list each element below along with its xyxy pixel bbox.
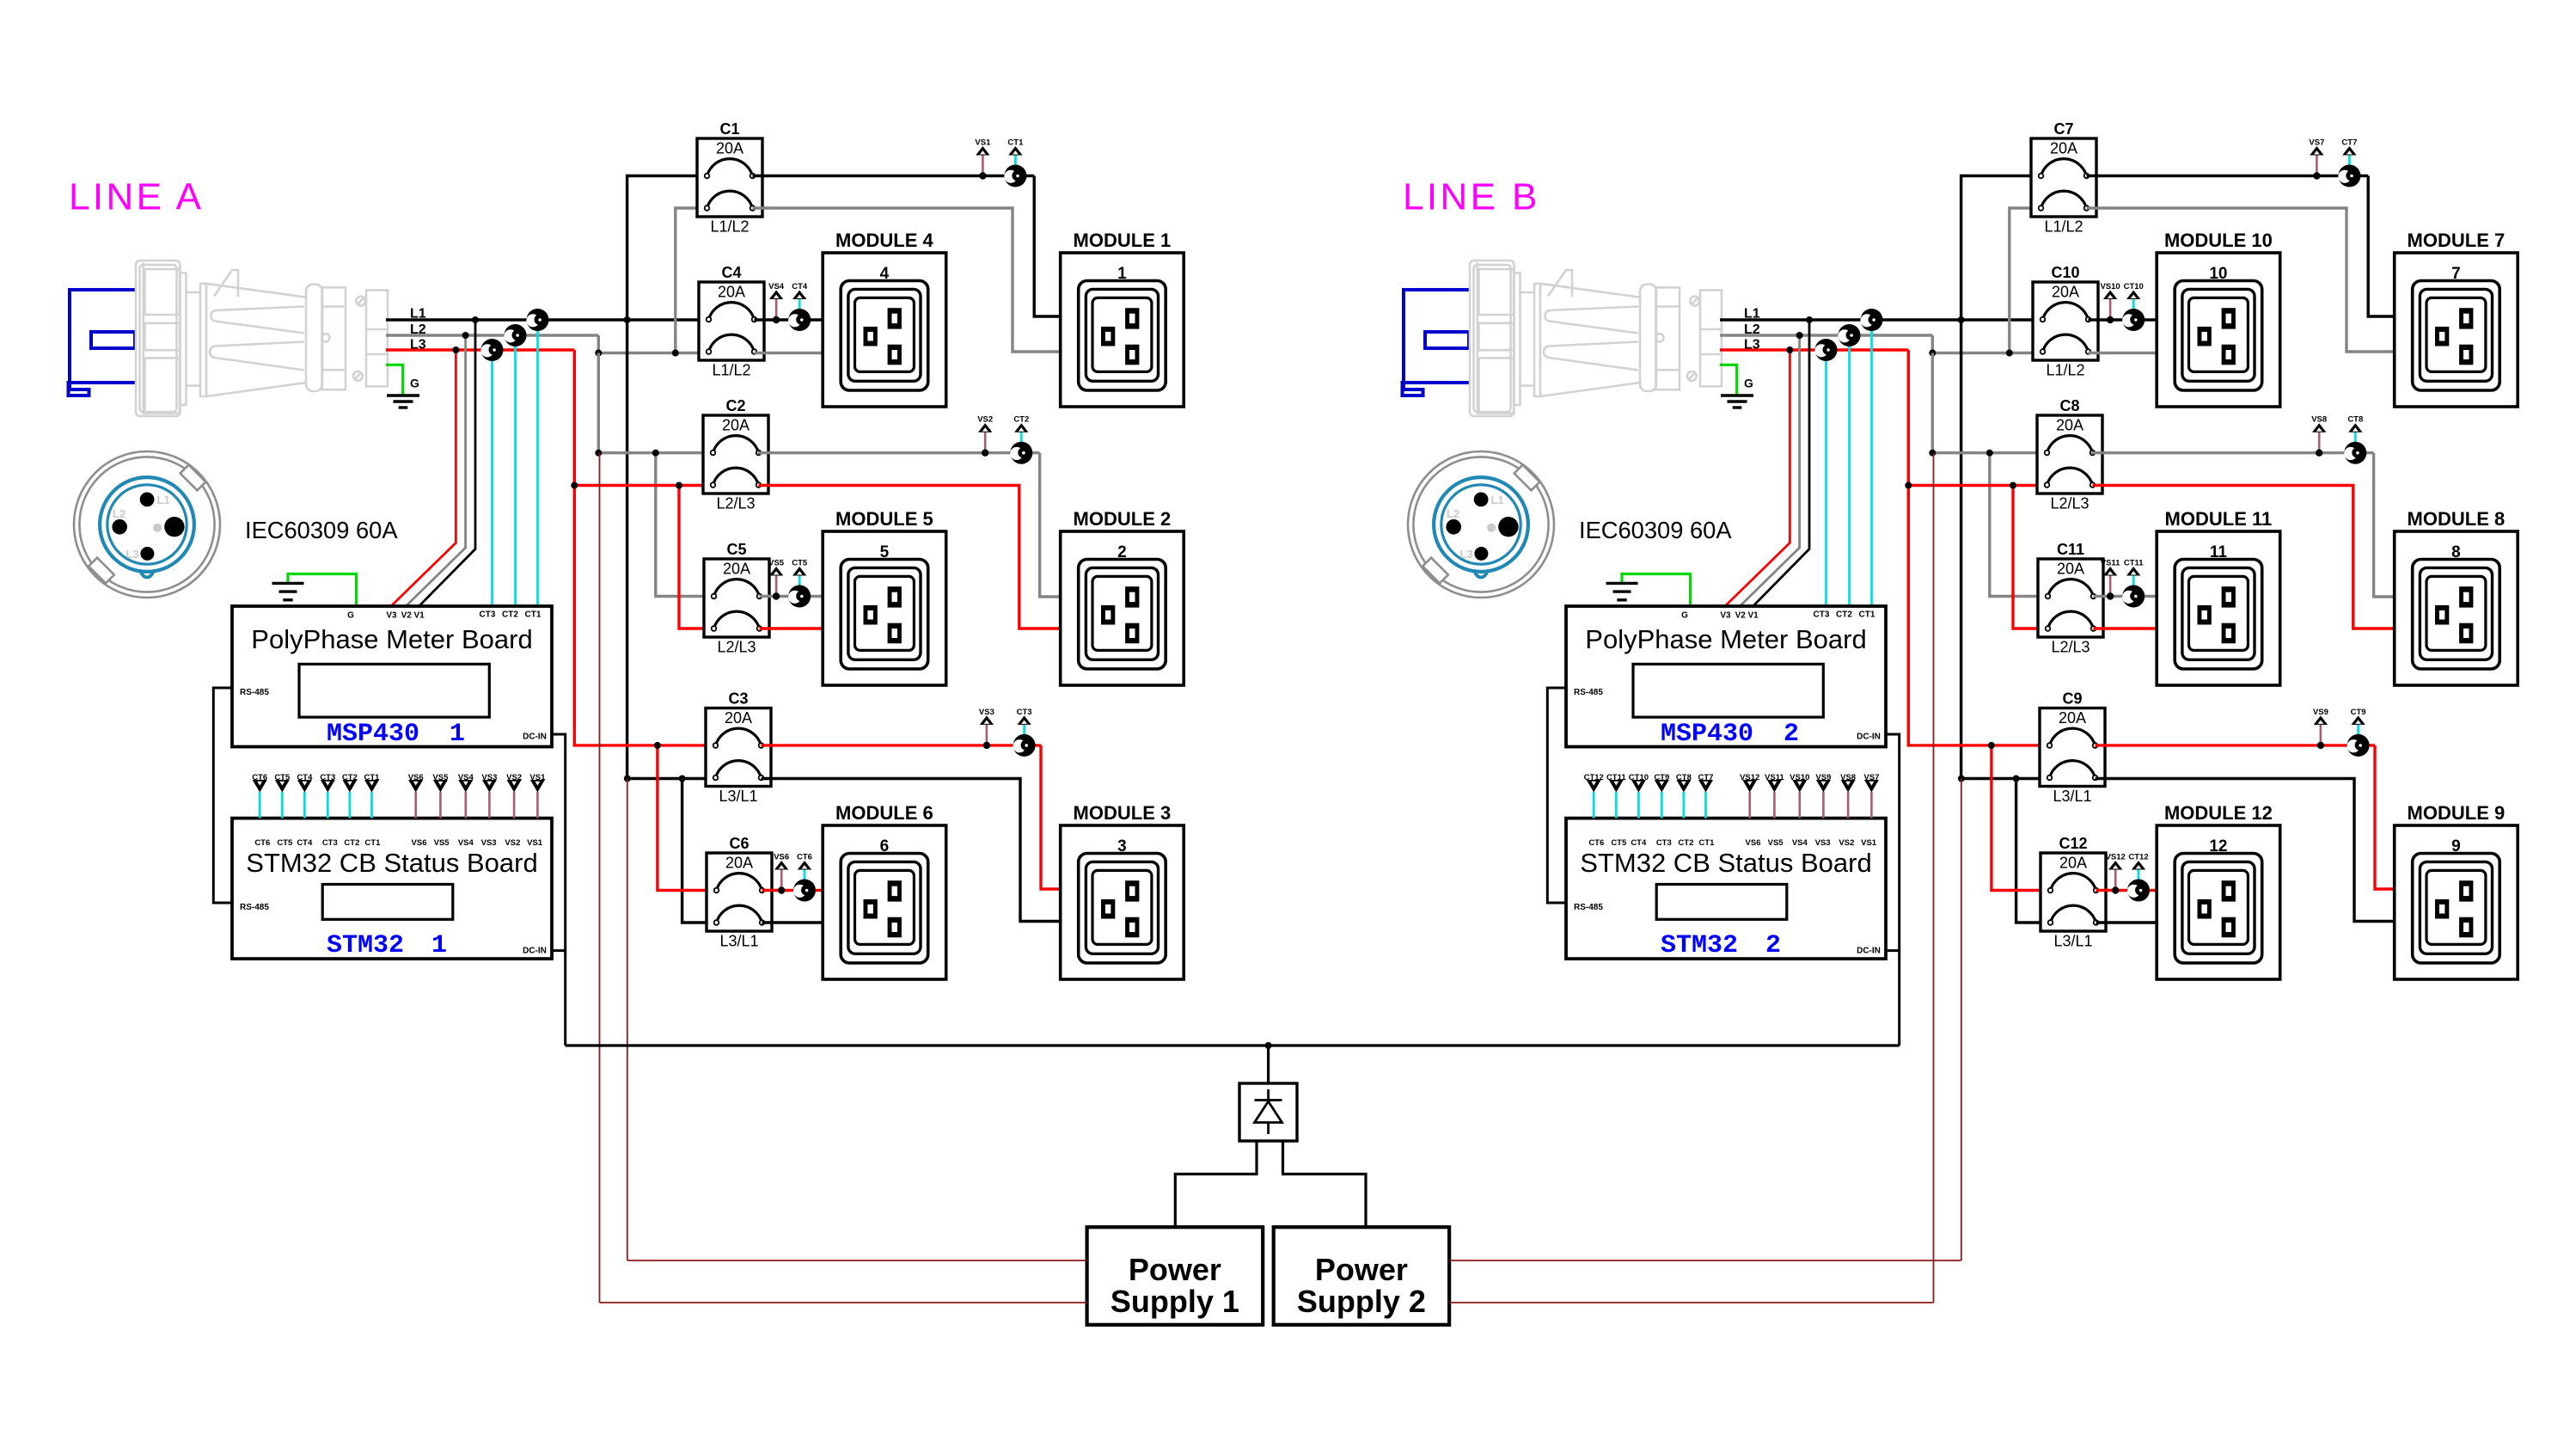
svg-text:Power: Power: [1315, 1252, 1408, 1287]
wire diode to PS2: [1283, 1141, 1367, 1227]
plug screw bottom: [353, 371, 363, 381]
wire diode to PS1: [1175, 1141, 1257, 1227]
svg-text:Supply 2: Supply 2: [1297, 1284, 1426, 1319]
wire CT1 lead (cyan): [536, 320, 539, 606]
svg-text:CT3: CT3: [320, 773, 335, 782]
junction L1/V1: [472, 316, 479, 323]
svg-text:L1: L1: [157, 494, 170, 506]
current transformer CT2: [1020, 432, 1023, 445]
svg-text:C9: C9: [2062, 690, 2082, 708]
svg-text:CT3: CT3: [322, 838, 338, 848]
voltage sense tap VS4: [775, 299, 778, 320]
svg-text:VS6: VS6: [412, 838, 427, 848]
module 6 outlet: [823, 825, 945, 979]
svg-text:Supply 1: Supply 1: [1111, 1284, 1239, 1319]
svg-text:CT1: CT1: [364, 773, 381, 782]
circuit breaker C5 20A: [704, 559, 769, 637]
svg-text:STM32: STM32: [1661, 931, 1738, 960]
junction L3/V3: [452, 346, 459, 353]
wire C1 pole2 output to module 1 lower: [753, 208, 1061, 352]
svg-text:VS4: VS4: [458, 773, 474, 782]
ground symbol at plug: [387, 396, 419, 408]
module 4 outlet: [823, 253, 945, 407]
svg-text:CT12: CT12: [1584, 773, 1604, 782]
junction L2/V2: [462, 332, 469, 339]
svg-text:PolyPhase Meter Board: PolyPhase Meter Board: [251, 624, 532, 654]
pin L2: [112, 519, 127, 535]
plug terminal block: [366, 291, 388, 387]
svg-text:CT12: CT12: [2128, 853, 2148, 862]
svg-text:CT5: CT5: [792, 559, 808, 568]
svg-text:CT8: CT8: [2347, 415, 2363, 425]
svg-text:VS10: VS10: [1790, 773, 1809, 782]
svg-text:VS6: VS6: [408, 773, 424, 782]
svg-text:VS4: VS4: [458, 838, 474, 848]
wire PS1 sense lower: [600, 1302, 1087, 1303]
svg-text:CT6: CT6: [252, 773, 267, 782]
current transformer CT4: [798, 299, 801, 311]
svg-text:VS3: VS3: [481, 773, 497, 782]
svg-text:RS-485: RS-485: [240, 903, 269, 912]
plug screw top: [356, 297, 365, 306]
svg-text:IEC60309 60A: IEC60309 60A: [245, 517, 398, 543]
wire PS sense (dark red) vertical 1: [599, 453, 601, 1303]
svg-text:6: 6: [880, 837, 890, 855]
current transformer CT3: [1023, 725, 1025, 737]
wire L2 drop to L2 rail feeding C4 pole2: [598, 335, 708, 353]
svg-text:2: 2: [1765, 931, 1781, 960]
svg-text:L1/L2: L1/L2: [2044, 218, 2083, 236]
voltage sense tap VS1: [982, 156, 984, 176]
svg-text:DC-IN: DC-IN: [523, 947, 547, 956]
svg-text:CT6: CT6: [254, 838, 270, 848]
svg-text:VS5: VS5: [434, 838, 450, 848]
svg-text:CT1: CT1: [364, 838, 381, 848]
VS connector arrow into STM32 board: [536, 792, 539, 819]
svg-text:MODULE 11: MODULE 11: [2165, 508, 2273, 530]
svg-text:LINE A: LINE A: [69, 176, 204, 218]
svg-text:CT8: CT8: [1676, 773, 1692, 782]
svg-text:C1: C1: [719, 120, 739, 138]
svg-text:L2: L2: [113, 507, 125, 520]
svg-text:MODULE 6: MODULE 6: [835, 802, 933, 824]
circuit breaker C3 20A: [706, 708, 771, 787]
junction trunk/DC sense tap: [624, 776, 631, 782]
svg-text:V1: V1: [413, 611, 425, 621]
wire C4 pole2 output to module 4: [755, 352, 823, 354]
junction L2 rail corner: [595, 350, 602, 357]
svg-text:CT2: CT2: [1013, 415, 1029, 425]
svg-text:9: 9: [2451, 837, 2461, 855]
svg-text:VS2: VS2: [506, 773, 522, 782]
svg-text:MODULE 1: MODULE 1: [1074, 230, 1172, 251]
wire drop to module 3 upper: [1041, 745, 1061, 889]
junction DC bus / diode feed: [1265, 1042, 1272, 1049]
svg-text:V2: V2: [401, 611, 413, 621]
svg-text:MODULE 10: MODULE 10: [2164, 230, 2273, 251]
svg-text:CT3: CT3: [480, 610, 496, 620]
VS connector arrow into STM32 board: [439, 792, 442, 819]
svg-text:12: 12: [2209, 837, 2227, 855]
svg-text:VS9: VS9: [1815, 773, 1831, 782]
module 3 outlet: [1061, 825, 1184, 979]
wire PS1 sense upper: [627, 1260, 1087, 1261]
current transformer CT6: [804, 870, 806, 882]
svg-text:VS3: VS3: [481, 838, 497, 848]
junction trunk/L1: [624, 316, 631, 323]
svg-text:MODULE 9: MODULE 9: [2408, 802, 2506, 824]
svg-text:VS6: VS6: [774, 853, 789, 862]
svg-text:CT5: CT5: [277, 838, 293, 848]
CT sensor on L3: [480, 339, 503, 361]
junction L2 rail/C1 riser: [672, 350, 679, 357]
svg-text:C11: C11: [2057, 541, 2084, 558]
wire V3 sense drop (red) to meter board: [391, 350, 456, 606]
svg-text:L1/L2: L1/L2: [712, 362, 750, 379]
svg-text:L1: L1: [410, 307, 426, 322]
wire L1 branch to C6 pole2: [682, 779, 717, 923]
svg-text:CT10: CT10: [1629, 773, 1649, 782]
svg-text:VS5: VS5: [768, 559, 785, 568]
CT connector arrow into STM32 board: [281, 792, 284, 819]
wire V1 sense drop (black) to meter board: [419, 320, 475, 606]
svg-text:L1/L2: L1/L2: [710, 218, 749, 236]
module 2 outlet: [1061, 531, 1184, 685]
wire C5 pole1 output to module 5: [760, 595, 823, 598]
svg-text:VS12: VS12: [1740, 773, 1759, 782]
svg-text:L3: L3: [410, 338, 426, 353]
svg-text:V3: V3: [386, 611, 397, 621]
svg-text:VS8: VS8: [2311, 415, 2327, 425]
wire C5 pole2 output to module 5: [760, 627, 823, 629]
wire C2 pole1 output: [758, 451, 1040, 454]
svg-text:VS8: VS8: [1840, 773, 1856, 782]
wire C2 pole2 output to module 2 lower: [759, 486, 1061, 629]
CT connector arrow into STM32 board: [348, 792, 351, 819]
wire L3 branch to C6 pole1: [658, 745, 717, 891]
plug detent: [321, 334, 329, 341]
svg-text:L3/L1: L3/L1: [719, 933, 758, 950]
svg-text:10: 10: [2209, 265, 2227, 283]
svg-text:MODULE 7: MODULE 7: [2408, 230, 2506, 251]
wire C6 pole2 output to module 6: [762, 921, 823, 923]
plug cable grip detail: [214, 270, 238, 297]
plug collar: [181, 273, 187, 406]
wire PS2 sense upper: [1449, 1260, 1961, 1261]
svg-text:VS1: VS1: [529, 773, 546, 782]
wire C3 pole1 output: [762, 744, 1042, 746]
svg-text:G: G: [347, 611, 354, 621]
voltage sense tap VS2: [984, 432, 987, 453]
svg-text:STM32 CB Status Board: STM32 CB Status Board: [246, 848, 537, 878]
svg-text:L2/L3: L2/L3: [717, 639, 756, 656]
svg-text:1: 1: [450, 720, 465, 749]
svg-text:L3/L1: L3/L1: [719, 788, 757, 805]
svg-text:MODULE 4: MODULE 4: [835, 230, 933, 251]
svg-text:CT4: CT4: [297, 838, 313, 848]
svg-text:MSP430: MSP430: [327, 720, 419, 749]
svg-text:4: 4: [880, 265, 890, 283]
svg-text:VS3: VS3: [979, 708, 994, 717]
svg-text:MODULE 8: MODULE 8: [2408, 508, 2506, 530]
junction L3 trunk/C2 feed: [571, 482, 578, 489]
svg-text:VS11: VS11: [1765, 773, 1784, 782]
plug rear cap: [136, 261, 181, 416]
voltage sense tap VS6: [780, 870, 783, 891]
svg-text:C5: C5: [726, 541, 746, 558]
svg-text:5: 5: [880, 543, 890, 561]
svg-text:CT2: CT2: [502, 610, 518, 620]
wire C3 pole2 output to module 3 lower: [762, 779, 1061, 922]
svg-text:VS2: VS2: [505, 838, 520, 848]
module 1 outlet: [1061, 253, 1184, 407]
svg-text:3: 3: [1117, 837, 1127, 855]
svg-text:CT11: CT11: [2124, 559, 2144, 568]
pin L1: [140, 493, 155, 507]
svg-text:STM32: STM32: [327, 931, 404, 960]
wire RS-485 bus: [213, 688, 232, 903]
wire L2 riser to C1 pole2: [676, 208, 707, 353]
svg-text:C10: C10: [2051, 264, 2079, 281]
circuit breaker C2 20A: [703, 415, 768, 494]
circuit breaker C4 20A: [699, 282, 764, 360]
svg-text:CT11: CT11: [1606, 773, 1626, 782]
svg-text:7: 7: [2451, 265, 2461, 283]
svg-text:VS1: VS1: [527, 838, 543, 848]
svg-text:CT4: CT4: [792, 282, 808, 291]
VS connector arrow into STM32 board: [414, 792, 417, 819]
svg-text:CT4: CT4: [297, 773, 313, 782]
wire CT2 lead (cyan): [514, 335, 517, 606]
svg-text:L3: L3: [126, 548, 139, 561]
wire V2 sense drop (gray) to meter board: [406, 335, 465, 606]
pin L3: [140, 547, 154, 561]
svg-text:VS7: VS7: [1863, 773, 1879, 782]
junction L1 branch to C6: [679, 776, 686, 782]
module 5 outlet: [823, 531, 945, 685]
svg-text:C12: C12: [2059, 835, 2087, 852]
svg-text:VS11: VS11: [2101, 559, 2120, 568]
junction L2 branch to C5: [652, 450, 659, 457]
voltage sense tap VS3: [986, 725, 988, 745]
wire G (green) from plug: [386, 365, 403, 394]
wire diode feed: [1267, 1046, 1270, 1083]
VS connector arrow into STM32 board: [464, 792, 467, 819]
svg-text:MODULE 3: MODULE 3: [1074, 802, 1172, 824]
wire L3 trunk down to C3 pole1: [574, 350, 715, 745]
svg-text:L1/L2: L1/L2: [2046, 362, 2084, 379]
svg-text:Power: Power: [1129, 1252, 1221, 1287]
svg-text:CT1: CT1: [1007, 138, 1024, 148]
Power Supply 2: [1274, 1227, 1449, 1325]
svg-text:CT6: CT6: [797, 853, 812, 862]
svg-text:RS-485: RS-485: [240, 688, 269, 697]
wire drop to module 1 upper: [1034, 176, 1061, 317]
plug cone: [206, 284, 308, 297]
svg-text:C2: C2: [725, 397, 745, 414]
CT sensor on L2: [504, 324, 526, 346]
svg-text:CT2: CT2: [344, 838, 359, 848]
svg-text:VS1: VS1: [975, 138, 991, 148]
svg-text:MODULE 2: MODULE 2: [1074, 508, 1172, 530]
wire C6 pole1 output to module 6: [762, 889, 823, 892]
current transformer CT5: [798, 576, 801, 588]
cable outline (blue): [69, 290, 137, 396]
svg-text:1: 1: [431, 931, 447, 960]
svg-text:DC-IN: DC-IN: [523, 733, 547, 742]
wire CT3 lead (cyan): [491, 350, 493, 606]
svg-text:VS4: VS4: [768, 282, 785, 291]
svg-text:C3: C3: [728, 690, 748, 708]
circuit breaker C6 20A: [707, 853, 772, 931]
junction L3 branch to C6: [654, 742, 661, 749]
svg-text:CT7: CT7: [1698, 773, 1714, 782]
voltage sense tap VS5: [775, 576, 778, 597]
svg-text:CT9: CT9: [1654, 773, 1669, 782]
IEC60309 connector face: [74, 451, 220, 598]
plug pin tunnel upper: [211, 307, 304, 334]
svg-text:VS9: VS9: [2313, 708, 2328, 717]
svg-text:L3/L1: L3/L1: [2053, 788, 2091, 805]
Power Supply 1: [1087, 1227, 1264, 1325]
svg-text:MODULE 5: MODULE 5: [835, 508, 933, 530]
svg-text:CT10: CT10: [2124, 282, 2144, 291]
svg-text:C7: C7: [2053, 120, 2073, 138]
svg-text:MSP430: MSP430: [1661, 720, 1753, 749]
wire C1 pole1 output: [753, 175, 1035, 177]
svg-text:VS2: VS2: [977, 415, 993, 425]
wire L2 (gray) horizontal: [386, 334, 598, 336]
circuit breaker C1 20A: [697, 138, 762, 217]
svg-text:LINE B: LINE B: [1403, 176, 1540, 218]
CT sensor on L1: [526, 309, 548, 331]
svg-text:CT3: CT3: [1017, 708, 1032, 717]
PolyPhase Meter Board: [232, 606, 552, 747]
svg-text:CT2: CT2: [342, 773, 358, 782]
svg-text:MODULE 12: MODULE 12: [2164, 802, 2273, 824]
wire drop to module 2 upper: [1040, 453, 1061, 597]
svg-text:C4: C4: [721, 264, 741, 281]
svg-text:VS5: VS5: [432, 773, 449, 782]
wire L1 trunk to C1 and C3 pole2: [627, 176, 716, 779]
plug front body: [322, 287, 346, 389]
svg-text:CT9: CT9: [2351, 708, 2366, 717]
wire DC-IN stub STM32: [552, 949, 566, 952]
VS connector arrow into STM32 board: [488, 792, 491, 819]
svg-text:L2/L3: L2/L3: [2051, 639, 2090, 656]
svg-text:L3/L1: L3/L1: [2053, 933, 2092, 950]
wire C4 pole1 output to module 4: [755, 318, 823, 321]
STM32 CB Status Board: [232, 819, 552, 960]
svg-text:L2: L2: [410, 322, 426, 337]
current transformer CT1: [1014, 156, 1017, 168]
LINE B half (translated copy): [1403, 138, 2518, 1303]
plug pin tunnel lower: [210, 342, 304, 371]
svg-text:CT1: CT1: [525, 610, 542, 620]
svg-text:VS7: VS7: [2309, 138, 2324, 148]
svg-text:1: 1: [1117, 265, 1127, 283]
svg-text:8: 8: [2451, 543, 2461, 561]
wire L3 (red) horizontal: [386, 348, 574, 351]
wire L3 branch to C5 pole2: [679, 486, 718, 629]
svg-text:C8: C8: [2059, 397, 2079, 414]
junction L2/C2/DC sense tap: [595, 450, 602, 457]
wire PS2 sense lower: [1449, 1302, 1933, 1303]
svg-text:VS12: VS12: [2106, 853, 2126, 862]
wire DC-IN drop to bus: [552, 734, 566, 1046]
junction L3 branch to C5: [676, 482, 682, 489]
wire L2 drop to C2 pole1: [598, 353, 713, 453]
wire G (green) to meter board: [288, 574, 357, 607]
plug bell: [306, 285, 322, 391]
svg-text:L2/L3: L2/L3: [2050, 495, 2089, 512]
VS connector arrow into STM32 board: [513, 792, 516, 819]
CT connector arrow into STM32 board: [259, 792, 261, 819]
svg-text:VS10: VS10: [2100, 282, 2120, 291]
svg-text:CT7: CT7: [2341, 138, 2357, 148]
wire L3 feed to C2 pole2: [574, 484, 713, 487]
CT connector arrow into STM32 board: [370, 792, 373, 819]
CT connector arrow into STM32 board: [327, 792, 329, 819]
svg-text:11: 11: [2210, 543, 2228, 561]
wire L2 branch to C5 pole1: [656, 453, 714, 597]
svg-text:C6: C6: [729, 835, 749, 852]
wire PS sense (dark red) vertical 2: [627, 779, 628, 1261]
svg-text:CT5: CT5: [274, 773, 291, 782]
plug flange: [200, 284, 206, 396]
wire L1 (black) plug to C4: [386, 318, 709, 321]
CT connector arrow into STM32 board: [303, 792, 306, 819]
wire DC bus: [566, 1044, 1900, 1046]
diode D1 (OR-ing): [1239, 1083, 1297, 1141]
svg-text:L2/L3: L2/L3: [716, 495, 755, 512]
svg-text:2: 2: [1784, 720, 1799, 749]
svg-text:G: G: [410, 377, 419, 390]
ground symbol at meter board: [272, 583, 304, 599]
svg-text:2: 2: [1117, 543, 1127, 561]
pin G: [164, 517, 184, 537]
